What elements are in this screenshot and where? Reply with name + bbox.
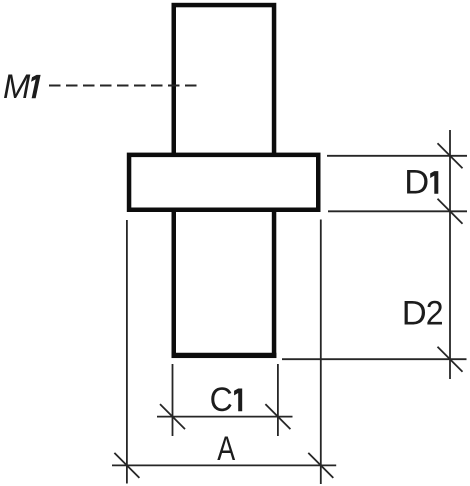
extension line flange top (D1 upper) [327, 155, 467, 157]
svg-text:D: D [402, 294, 427, 332]
extension line flange bottom (D1 lower / D2 upper) [328, 210, 467, 212]
svg-text:C: C [210, 381, 233, 419]
dimension line C1 [157, 416, 293, 418]
dimension line A [112, 464, 336, 466]
extension line A right [320, 220, 322, 485]
hex flange body [129, 155, 318, 210]
tick mark at A left [114, 453, 139, 478]
tick mark at C1 left [160, 404, 185, 429]
tick mark at D1 top [438, 143, 463, 168]
D2 label [402, 294, 444, 332]
D1 label [404, 164, 438, 202]
extension line stud bottom (D2 lower) [282, 358, 467, 360]
extension line A left [126, 220, 128, 484]
tick mark at A right [308, 453, 333, 478]
lower threaded stud body [174, 205, 274, 356]
M1 leader dashed line [49, 85, 202, 87]
M1 label [3, 68, 41, 106]
extension line C1 right [277, 364, 279, 436]
tick mark at D1 bottom / D2 top [438, 199, 463, 224]
tick mark at D2 bottom [438, 347, 463, 372]
svg-text:M: M [3, 68, 31, 106]
tick mark at C1 right [265, 404, 290, 429]
dimension line D1/D2 vertical [449, 130, 451, 379]
C1 label [210, 381, 243, 419]
upper threaded stud body [174, 5, 274, 160]
svg-text:D: D [404, 164, 429, 202]
svg-text:2: 2 [426, 294, 444, 332]
lower stud bottom face line [172, 353, 277, 358]
extension line C1 left [172, 364, 174, 436]
svg-text:A: A [217, 429, 235, 468]
